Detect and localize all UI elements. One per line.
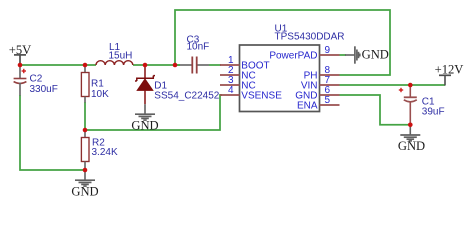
svg-text:9: 9 — [325, 45, 331, 56]
capacitor C1 39uF polarized — [399, 85, 417, 125]
svg-text:5: 5 — [325, 95, 331, 106]
wire VSENSE feedback from R1/R2 node to pin4 — [85, 95, 222, 130]
wire main rail from +5V node to C3 — [20, 64, 180, 66]
svg-text:+5V: +5V — [9, 43, 32, 57]
svg-text:GND: GND — [131, 118, 158, 132]
power flag +5V — [9, 43, 32, 65]
ground below C1 — [398, 125, 425, 153]
resistor R1 — [81, 65, 89, 103]
wire VIN pin7 to +12V and C1 — [340, 84, 446, 86]
capacitor C3 10nF bootstrap — [176, 57, 221, 74]
pin 5 ENA — [297, 95, 340, 112]
wire C2 bottom to R2 bottom node — [20, 95, 85, 170]
reference label U1 TPS5430DDAR — [275, 23, 345, 42]
value label R2 3.24K — [92, 138, 118, 159]
pin 6 GND — [295, 85, 339, 102]
svg-text:330uF: 330uF — [30, 84, 58, 95]
svg-text:SS54_C22452: SS54_C22452 — [154, 91, 219, 102]
op-amp U1 TPS5430DDAR body — [240, 45, 320, 112]
pin 7 VIN — [301, 75, 340, 92]
value label D1 SS54_C22452 — [154, 81, 219, 102]
power flag +12V — [435, 63, 464, 86]
svg-text:10nF: 10nF — [187, 42, 210, 53]
pin 8 PH — [304, 65, 340, 82]
ground flag at pin 9 (sideways) — [345, 46, 389, 63]
svg-text:+12V: +12V — [435, 63, 464, 77]
value label C3 10nF — [187, 35, 210, 53]
wire pin9 stub to GND flag — [340, 54, 347, 56]
diode D1 schottky — [135, 65, 155, 104]
pin 9 PowerPAD — [269, 45, 339, 62]
node junction +5V/C2 — [18, 63, 23, 68]
pin 1 BOOT — [220, 55, 270, 72]
svg-text:GND: GND — [71, 184, 98, 198]
svg-text:3.24K: 3.24K — [92, 147, 118, 158]
inductor L1 — [96, 61, 133, 65]
svg-text:PowerPAD: PowerPAD — [269, 51, 317, 62]
value label C2 330uF — [30, 74, 58, 96]
resistor R2 — [81, 130, 89, 170]
pin 4 VSENSE — [220, 85, 282, 102]
svg-text:39uF: 39uF — [422, 106, 445, 117]
ground below R2 — [71, 170, 98, 198]
pin 2 NC — [220, 65, 256, 82]
svg-text:GND: GND — [362, 47, 389, 61]
svg-text:ENA: ENA — [297, 101, 318, 112]
ground below D1 — [131, 104, 158, 132]
svg-text:R1: R1 — [91, 79, 104, 90]
svg-text:15uH: 15uH — [109, 51, 133, 62]
value label R1 10K — [91, 79, 109, 101]
wire GND pin6 to C1 bottom — [340, 95, 411, 125]
node junction R1 top — [83, 63, 88, 68]
node junction C1 top — [408, 83, 413, 88]
capacitor C2 330uF polarized — [14, 65, 27, 96]
svg-text:TPS5430DDAR: TPS5430DDAR — [275, 32, 345, 43]
wire top rail PH to C3 left node — [175, 10, 390, 75]
node junction D1 top — [143, 63, 148, 68]
svg-text:10K: 10K — [91, 89, 109, 100]
node junction C3 left — [173, 63, 178, 68]
wire R1 bottom to R1/R2 node — [84, 102, 86, 130]
svg-text:VSENSE: VSENSE — [241, 91, 282, 102]
node junction R1/R2 — [83, 128, 88, 133]
pin 3 NC — [220, 75, 256, 92]
svg-text:C2: C2 — [30, 74, 43, 85]
svg-text:4: 4 — [228, 85, 234, 96]
node junction C1 bottom — [408, 123, 413, 128]
node junction R2 bottom — [83, 168, 88, 173]
value label C1 39uF — [422, 97, 445, 118]
value label L1 15uH — [109, 42, 133, 62]
svg-text:GND: GND — [398, 139, 425, 153]
